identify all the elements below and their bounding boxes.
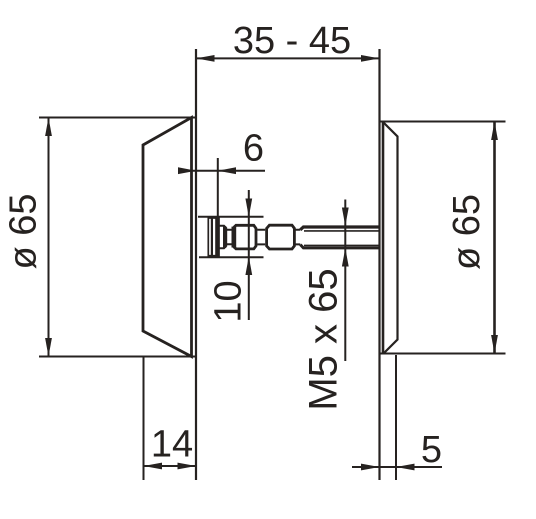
spindle rib 1 right wall xyxy=(223,226,226,248)
spindle threaded rod outer top xyxy=(300,227,380,230)
svg-text:ø 65: ø 65 xyxy=(2,193,44,269)
dim 10 bottom extension line xyxy=(199,256,264,258)
spindle neck 1 xyxy=(226,230,232,244)
spindle thread root lines xyxy=(304,231,380,246)
right rose chamfer contour xyxy=(384,123,398,354)
svg-text:M5 x 65: M5 x 65 xyxy=(302,268,346,410)
dim right dia65 top arrow xyxy=(491,122,498,141)
dim 35-45 line xyxy=(196,57,380,59)
dim right dia65 bottom arrow xyxy=(491,335,498,354)
dim 10 line xyxy=(248,190,250,320)
dim 14 right arrow xyxy=(178,463,197,470)
spindle neck 2 xyxy=(257,230,265,245)
svg-text:ø 65: ø 65 xyxy=(446,194,488,270)
spindle collar bar xyxy=(215,217,219,256)
dim 35-45 right arrow xyxy=(361,55,380,62)
dim 14 line xyxy=(144,465,197,467)
left door face line xyxy=(195,49,197,480)
dim 14 left extension line xyxy=(143,357,145,480)
right door face line xyxy=(378,49,380,480)
dim 6 line xyxy=(180,170,265,172)
spindle rib 1 xyxy=(219,226,226,249)
spindle rib 2 xyxy=(233,225,256,249)
dim 6 right arrow xyxy=(218,167,236,174)
dim left dia65 top arrow xyxy=(45,118,52,137)
dim left dia65 line xyxy=(48,118,50,357)
svg-text:14: 14 xyxy=(151,424,193,466)
left rose top extension line xyxy=(39,117,196,119)
spindle group xyxy=(208,217,380,256)
left rose bottom extension line xyxy=(39,356,196,358)
right rose bottom edge / extension xyxy=(380,353,506,355)
dim M5 bottom arrow xyxy=(342,248,349,267)
left rose outline xyxy=(143,118,192,357)
spindle washer outline xyxy=(208,218,219,256)
dimension lines xyxy=(45,55,498,480)
svg-text:5: 5 xyxy=(421,429,442,471)
spindle rib 2 left wall xyxy=(233,225,235,249)
right rose right face / dim line xyxy=(493,122,496,354)
dim 10 top extension line xyxy=(198,216,264,218)
right rose left face xyxy=(382,122,385,354)
dim M5 line xyxy=(344,200,346,362)
dim 5 extension line xyxy=(395,355,397,480)
dim 10 top arrow xyxy=(245,199,252,217)
dim 5 line xyxy=(352,466,442,468)
dim 5 right arrow xyxy=(396,464,415,471)
svg-text:10: 10 xyxy=(207,280,249,322)
spindle neck 3 xyxy=(295,230,300,245)
svg-text:6: 6 xyxy=(243,128,264,170)
right rose top edge / extension xyxy=(380,121,506,123)
dim 35-45 left arrow xyxy=(196,55,215,62)
spindle washer inner line xyxy=(211,218,213,256)
dim 5 left arrow xyxy=(361,464,380,471)
dim 10 bottom arrow xyxy=(245,257,252,275)
dim 6 right extension line xyxy=(217,158,219,218)
spindle threaded rod outer bottom xyxy=(300,245,380,248)
spindle rib 3 xyxy=(267,225,295,249)
dim 14 left arrow xyxy=(144,463,163,470)
dim left dia65 bottom arrow xyxy=(45,338,52,357)
svg-text:35 - 45: 35 - 45 xyxy=(233,20,351,62)
dim M5 top arrow xyxy=(342,208,349,227)
dim 6 left arrow xyxy=(178,167,196,174)
